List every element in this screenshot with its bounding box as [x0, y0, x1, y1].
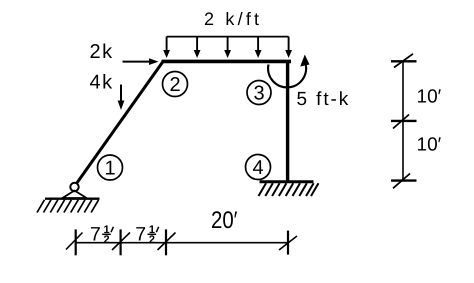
svg-text:3: 3: [253, 83, 264, 105]
horizontal dimension line (bottom): [76, 242, 289, 244]
svg-text:5 ft-k: 5 ft-k: [297, 89, 351, 110]
vertical dimension line (right): [402, 61, 404, 180]
distributed load arrow 3: [224, 37, 231, 58]
dimension tick top: [391, 54, 417, 68]
svg-text:2: 2: [104, 234, 110, 246]
svg-text:2: 2: [149, 234, 155, 246]
joint label 1: [98, 155, 123, 180]
dimension tick C: [158, 229, 176, 255]
member: right column: [286, 60, 289, 182]
member: top beam (joint 2 to joint 3/column): [162, 60, 292, 64]
moment arc 5 ft-k: [268, 55, 309, 88]
dimension tick A: [66, 229, 83, 255]
distributed load top line: [167, 36, 289, 38]
force arrow 4k (vertical): [118, 85, 125, 111]
joint label 3: [247, 81, 271, 105]
force arrow 2k (horizontal): [123, 58, 159, 65]
distributed load arrow 5: [285, 37, 292, 58]
fixed support: hatching: [259, 183, 319, 196]
dimension tick bottom: [391, 174, 417, 189]
svg-text:4k: 4k: [90, 72, 114, 94]
svg-text:2 k/ft: 2 k/ft: [204, 9, 262, 29]
dimension label 7 1/2 ft (first): [90, 224, 113, 246]
distributed load arrow 1: [163, 37, 170, 58]
svg-text:10′: 10′: [417, 135, 442, 156]
svg-text:20′: 20′: [211, 207, 238, 234]
joint label 4: [246, 155, 271, 180]
joint label 2: [163, 72, 188, 97]
svg-text:4: 4: [252, 157, 263, 179]
svg-text:10′: 10′: [417, 87, 442, 108]
member: inclined column (pin to joint 2): [77, 62, 164, 184]
svg-text:2: 2: [169, 74, 180, 96]
fixed support: ground line: [260, 180, 314, 183]
pin support: triangle: [63, 191, 87, 199]
pin support: pin circle: [70, 183, 78, 191]
dimension label 7 1/2 ft (second): [135, 224, 158, 246]
svg-text:2k: 2k: [90, 41, 114, 63]
pin support: ground line: [45, 197, 100, 199]
dimension tick middle: [391, 115, 417, 129]
pin support: hatching: [37, 200, 99, 213]
distributed load arrow 2: [194, 37, 201, 58]
svg-text:7: 7: [90, 224, 101, 246]
svg-text:7: 7: [135, 224, 146, 246]
svg-text:1: 1: [104, 158, 115, 180]
dimension tick D: [279, 231, 297, 255]
distributed load arrow 4: [255, 37, 262, 58]
dimension tick B: [112, 229, 130, 255]
